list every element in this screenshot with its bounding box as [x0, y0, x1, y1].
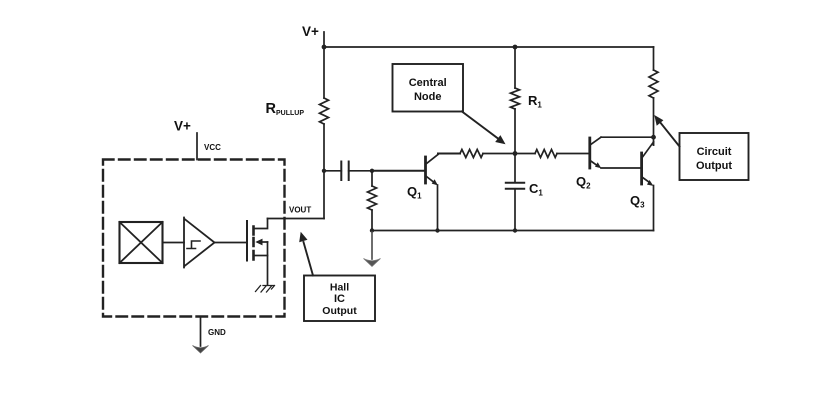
svg-text:RPULLUP: RPULLUP: [266, 101, 305, 117]
wire hall-output arrow: [304, 242, 314, 276]
resistor central node to Q2 base: [535, 150, 557, 158]
capacitor C1: [506, 183, 524, 189]
node junction base node: [370, 169, 374, 173]
svg-text:VCC: VCC: [204, 143, 221, 152]
resistor RPULLUP: [320, 98, 329, 124]
wire base node to Q1 base: [372, 170, 425, 172]
wire right branch vertical (top): [653, 47, 655, 145]
node junction bottom-left: [370, 228, 374, 232]
wire central-node arrow: [462, 112, 500, 141]
wire hall element to amp: [163, 242, 185, 244]
svg-text:V+: V+: [174, 119, 191, 134]
svg-text:R1: R1: [528, 93, 542, 110]
box Hall IC Output callout: [304, 276, 375, 322]
svg-text:Node: Node: [414, 91, 442, 103]
svg-text:VOUT: VOUT: [289, 206, 311, 215]
svg-text:Q3: Q3: [630, 193, 645, 210]
Hall IC dashed enclosure: [103, 160, 285, 317]
node junction C1 / bottom rail: [513, 228, 517, 232]
wire GND pin: [200, 317, 202, 347]
svg-text:Q1: Q1: [407, 184, 422, 201]
transistor Q1: [407, 155, 438, 201]
wire central node down to C1: [514, 154, 516, 183]
ground (signal ground arrow): [364, 259, 381, 267]
transistor M1 (output MOSFET): [247, 219, 268, 285]
svg-text:Output: Output: [322, 305, 357, 317]
wire Q1 emitter down: [437, 185, 439, 231]
ground (chassis hatch under MOSFET): [256, 286, 275, 293]
resistor Q1 collector to central node: [460, 150, 483, 158]
wire base node down to resistor and bottom rail: [371, 171, 373, 231]
svg-text:Circuit: Circuit: [697, 146, 732, 158]
hall element (crossed square): [120, 222, 163, 263]
transistor Q3: [630, 142, 654, 210]
ground (GND arrow): [193, 346, 209, 354]
wire R1 branch vertical: [514, 47, 516, 154]
wire Q3 collector stub: [653, 142, 655, 145]
wire C1 to bottom rail: [514, 189, 516, 231]
resistor top-right (output pullup): [649, 70, 658, 98]
transistor Q2: [576, 137, 601, 190]
wire coupling-cap right lead to base node: [349, 170, 372, 172]
wire Q2 emitter to Q3 base: [601, 167, 640, 169]
wire VOUT drain to pullup: [268, 218, 325, 220]
node junction top rail / R1: [513, 45, 518, 50]
wire Q2 collector to right branch: [601, 136, 654, 138]
wire ground stub: [371, 231, 373, 260]
capacitor coupling (series): [341, 162, 348, 181]
box Circuit Output callout: [680, 133, 749, 180]
svg-text:Output: Output: [696, 160, 732, 172]
svg-text:Hall: Hall: [330, 282, 349, 294]
node junction collectors: [651, 135, 656, 140]
resistor R1: [511, 88, 520, 109]
svg-text:V+: V+: [302, 24, 319, 39]
wire resistor to central node: [483, 153, 535, 155]
svg-text:Q2: Q2: [576, 174, 591, 191]
svg-text:Central: Central: [409, 77, 447, 89]
wire coupling-cap left lead: [324, 170, 341, 172]
svg-text:C1: C1: [529, 181, 543, 198]
wire Q3 emitter down to bottom rail: [653, 186, 655, 231]
wire amp to gate: [215, 242, 248, 244]
node junction pullup/cap: [322, 169, 326, 173]
box Central Node callout: [393, 64, 464, 112]
node junction V+/pullup: [322, 45, 327, 50]
op-amp (Schmitt trigger buffer): [184, 218, 215, 268]
wire top rail: [324, 46, 654, 48]
wire bottom rail: [372, 230, 654, 232]
node central node junction: [513, 151, 518, 156]
wire circuit-output arrow: [660, 122, 680, 147]
resistor below base node: [368, 186, 377, 210]
wire VCC pin: [196, 133, 198, 160]
node junction Q1 emitter / bottom rail: [435, 228, 439, 232]
svg-text:IC: IC: [334, 293, 345, 305]
wire Q1 collector to resistor: [438, 153, 460, 155]
wire resistor to Q2 base: [557, 153, 589, 155]
wire V+ vertical pullup branch: [323, 32, 325, 219]
svg-text:GND: GND: [208, 328, 226, 337]
